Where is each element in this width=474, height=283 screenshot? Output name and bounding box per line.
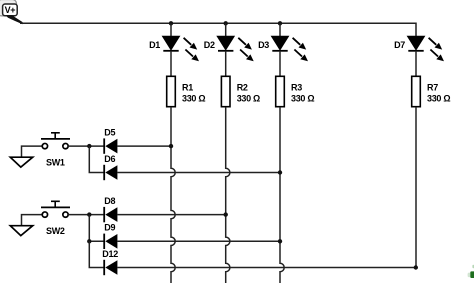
node SW2 output <box>87 212 91 216</box>
node SW2 / D9 branch <box>87 239 91 243</box>
diode D6 <box>104 165 117 180</box>
diode D8 <box>104 207 117 222</box>
diode D9 <box>104 234 117 249</box>
svg-text:D1: D1 <box>149 40 160 50</box>
LED D7 <box>408 36 445 61</box>
LED D2 <box>217 36 254 61</box>
pushbutton SW2 <box>41 201 70 217</box>
wire D1 cathode to R1 <box>170 51 172 76</box>
wire D2 column below R2 (hops over D6,D9,D12 rows) <box>226 107 230 283</box>
wire SW2 node down to D9 row <box>89 215 104 242</box>
svg-text:SW1: SW1 <box>46 158 65 168</box>
wire D3 anode <box>279 23 281 36</box>
wire SW1 to node <box>68 145 104 147</box>
resistor R7 <box>412 76 421 106</box>
wire D1 anode <box>170 23 172 36</box>
node SW1 output <box>87 144 91 148</box>
label R2 330 ohm <box>237 83 260 104</box>
svg-text:V+: V+ <box>5 5 16 15</box>
label R7 330 ohm <box>427 83 450 104</box>
svg-text:330 Ω: 330 Ω <box>427 93 450 103</box>
label R1 330 ohm <box>182 83 205 104</box>
ground GND1 <box>10 157 32 167</box>
LED D3 <box>272 36 309 61</box>
node D8 / D2 column <box>224 212 228 216</box>
green marker bottom right <box>468 265 474 278</box>
svg-text:D12: D12 <box>102 249 118 259</box>
wire D1 column below R1 (hops over D6,D8,D9,D12 rows) <box>171 107 175 283</box>
resistor R1 <box>167 76 176 106</box>
svg-text:D5: D5 <box>104 127 115 137</box>
LED D1 <box>163 36 200 61</box>
wire D12 to D7 column <box>117 267 416 269</box>
wire D5 to D1 column <box>117 145 171 147</box>
wire D7 cathode to R7 <box>415 51 417 76</box>
svg-text:D9: D9 <box>104 223 115 233</box>
label R3 330 ohm <box>291 83 314 104</box>
svg-text:330 Ω: 330 Ω <box>237 93 260 103</box>
pushbutton SW1 <box>41 133 70 149</box>
wire SW2 to node <box>68 214 104 216</box>
node D12 / D7 column <box>414 265 418 269</box>
node top rail / D3 anode <box>278 21 282 25</box>
wire D7 column below R7 <box>415 107 417 268</box>
svg-text:R3: R3 <box>291 83 302 93</box>
wire SW2 to ground <box>22 215 43 226</box>
node D5 / D1 column <box>169 144 173 148</box>
svg-text:R2: R2 <box>237 83 248 93</box>
node D6 / D3 column <box>278 170 282 174</box>
wire SW1 node down to D6 row <box>89 146 104 172</box>
svg-text:R7: R7 <box>427 83 438 93</box>
node D9 / D3 column <box>278 239 282 243</box>
svg-text:D7: D7 <box>394 40 405 50</box>
resistor R2 <box>221 76 230 106</box>
wire SW1 to ground <box>22 146 43 157</box>
svg-text:D3: D3 <box>258 40 269 50</box>
svg-text:SW2: SW2 <box>46 226 65 236</box>
wire D9 branch down to D12 row <box>89 241 104 267</box>
wire D9 to D3 column <box>117 240 280 242</box>
svg-text:D8: D8 <box>104 196 115 206</box>
svg-text:330 Ω: 330 Ω <box>182 93 205 103</box>
wire D2 anode <box>225 23 227 36</box>
ground GND2 <box>10 226 32 236</box>
wire top rail V+ to D7 <box>20 23 416 36</box>
node top rail / D1 anode <box>169 21 173 25</box>
diode D5 <box>104 138 117 153</box>
wire D3 column below R3 (hops over D12 row) <box>280 107 284 283</box>
svg-text:R1: R1 <box>182 83 193 93</box>
wire D2 cathode to R2 <box>225 51 227 76</box>
resistor R3 <box>276 76 285 106</box>
node top rail / D2 anode <box>224 21 228 25</box>
diode D12 <box>104 260 117 275</box>
wire D6 to D3 column <box>117 172 280 174</box>
wire D8 to D2 column <box>117 214 225 216</box>
svg-text:D6: D6 <box>104 154 115 164</box>
svg-text:D2: D2 <box>204 40 215 50</box>
wire D3 cathode to R3 <box>279 51 281 76</box>
svg-text:330 Ω: 330 Ω <box>291 93 314 103</box>
net flag V+ <box>0 0 23 24</box>
